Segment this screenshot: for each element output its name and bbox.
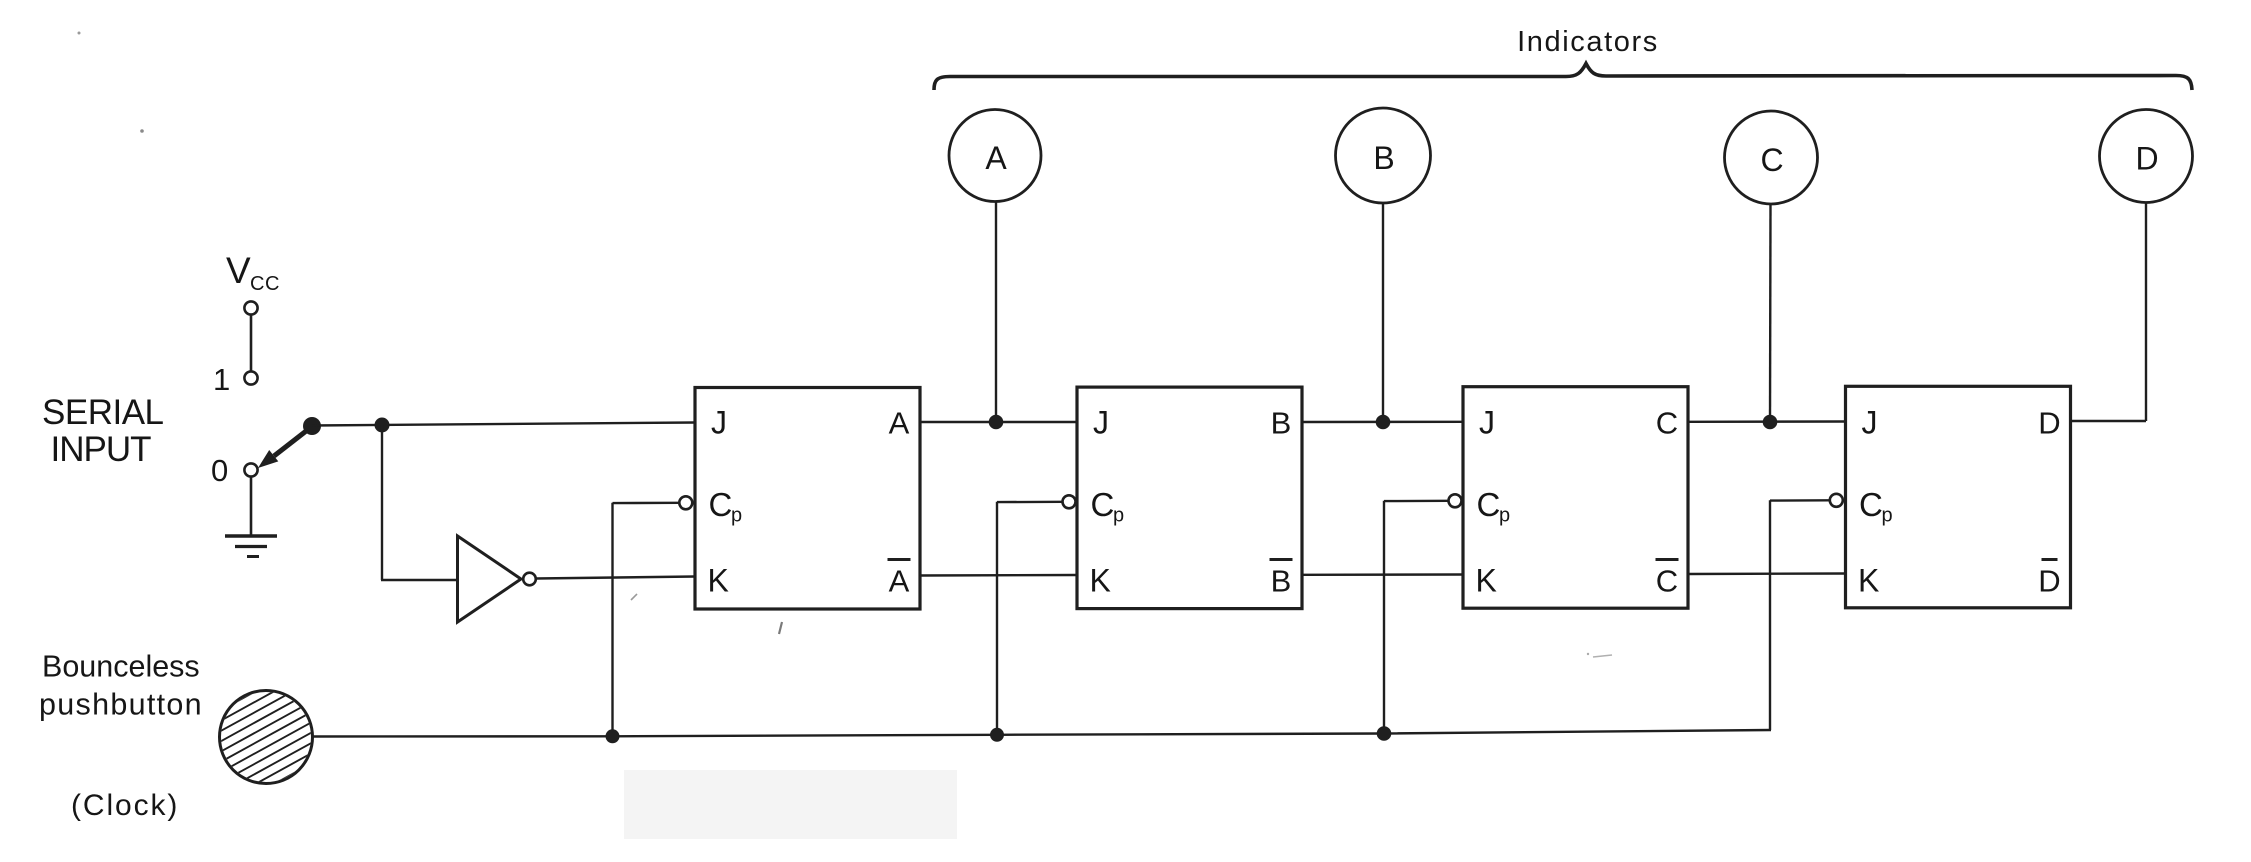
svg-text:Bounceless: Bounceless [42, 650, 200, 684]
svg-text:K: K [1858, 563, 1879, 599]
svg-text:p: p [731, 505, 742, 527]
svg-text:D: D [2038, 564, 2060, 599]
svg-text:C: C [1477, 486, 1501, 523]
svg-text:SERIAL: SERIAL [42, 393, 164, 432]
svg-text:B: B [1271, 406, 1292, 441]
svg-text:(Clock): (Clock) [71, 789, 179, 822]
svg-text:D: D [2038, 406, 2060, 441]
svg-text:D: D [2135, 141, 2158, 177]
svg-text:C: C [1760, 142, 1783, 178]
svg-text:INPUT: INPUT [51, 430, 152, 469]
svg-text:K: K [1090, 563, 1111, 599]
svg-text:p: p [1113, 505, 1124, 527]
svg-text:A: A [985, 140, 1007, 176]
svg-text:C: C [1859, 486, 1883, 523]
svg-text:Indicators: Indicators [1517, 26, 1659, 58]
svg-text:1: 1 [213, 362, 230, 397]
svg-text:J: J [1093, 405, 1109, 441]
svg-text:A: A [889, 406, 910, 441]
svg-text:V: V [226, 250, 251, 291]
svg-text:J: J [1479, 405, 1495, 441]
svg-text:C: C [1091, 486, 1115, 523]
svg-text:B: B [1373, 140, 1394, 176]
svg-text:K: K [708, 563, 729, 599]
svg-text:p: p [1499, 505, 1510, 527]
svg-text:p: p [1882, 505, 1893, 527]
svg-text:CC: CC [250, 273, 280, 295]
svg-text:J: J [711, 405, 727, 441]
svg-text:A: A [889, 564, 910, 599]
svg-text:C: C [1656, 564, 1678, 599]
svg-text:C: C [709, 486, 733, 523]
svg-text:C: C [1656, 406, 1678, 441]
svg-text:pushbutton: pushbutton [39, 688, 203, 722]
svg-text:K: K [1476, 563, 1497, 599]
svg-text:0: 0 [211, 453, 228, 488]
svg-text:B: B [1271, 564, 1292, 599]
svg-text:J: J [1862, 405, 1878, 441]
